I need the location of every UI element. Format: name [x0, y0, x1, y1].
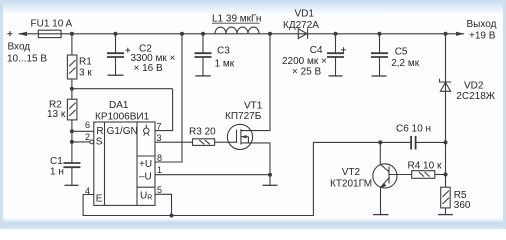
svg-text:VD1: VD1	[295, 9, 315, 20]
wire C5 column	[379, 34, 381, 53]
node rail VT1 drain	[268, 32, 272, 36]
svg-text:1 н: 1 н	[50, 167, 64, 178]
svg-text:2: 2	[85, 132, 90, 142]
svg-text:VT1: VT1	[244, 101, 263, 112]
capacitor C6	[411, 136, 416, 150]
node rail C3	[201, 32, 205, 36]
svg-text:360: 360	[454, 200, 471, 211]
svg-text:R: R	[96, 126, 103, 137]
svg-text:4: 4	[85, 186, 90, 196]
node rail C2	[114, 32, 118, 36]
node rail VD2	[444, 32, 448, 36]
node input plus	[7, 31, 12, 36]
wire VT1 source	[241, 143, 270, 175]
wire pin1 minus U	[155, 174, 270, 176]
svg-text:2,2 мк: 2,2 мк	[391, 58, 420, 69]
capacitor C4	[327, 53, 344, 57]
node rail R1	[70, 32, 74, 36]
svg-text:VT2: VT2	[342, 167, 361, 178]
wire top rail	[19, 33, 464, 35]
wire pin2	[72, 141, 90, 143]
capacitor C1	[63, 163, 80, 167]
svg-text:1: 1	[157, 165, 162, 175]
inductor L1	[215, 27, 259, 34]
svg-text:5: 5	[157, 185, 162, 195]
wire R1 column from rail to C1	[71, 34, 73, 55]
resistor R4	[412, 171, 435, 179]
svg-text:6: 6	[85, 120, 90, 130]
transistor VT2	[373, 164, 397, 188]
capacitor C2	[107, 53, 124, 57]
svg-text:× 16 В: × 16 В	[134, 63, 164, 74]
node rail C4	[334, 32, 338, 36]
svg-text:3: 3	[157, 133, 162, 143]
ground (C2)	[108, 74, 124, 76]
svg-text:+19 В: +19 В	[469, 30, 496, 41]
svg-text:C5: C5	[395, 47, 408, 58]
wire pin8 vertical	[155, 34, 182, 162]
wire pin4 E to bottom rail	[83, 142, 411, 215]
svg-text:R4 10 к: R4 10 к	[408, 160, 442, 171]
svg-text:КП727Б: КП727Б	[225, 111, 262, 122]
resistor R1	[67, 55, 77, 79]
wire VT2 emitter	[380, 188, 382, 215]
wire C3 column	[202, 34, 204, 53]
resistor R5	[441, 187, 451, 208]
node VT1 source minus U	[268, 173, 272, 177]
svg-text:–U: –U	[139, 172, 152, 183]
ground (VT2 emitter)	[373, 214, 389, 216]
wire VT2 base to R4	[389, 174, 412, 176]
node VT2 collector	[378, 140, 382, 144]
ground (minus U)	[263, 184, 278, 186]
wire R1R2 junction horizontal	[72, 88, 173, 90]
node C6 VD2 column	[444, 140, 448, 144]
svg-text:КТ201ГМ: КТ201ГМ	[330, 179, 372, 190]
node pin5 bottom rail	[170, 214, 174, 218]
svg-text:FU1 10 A: FU1 10 A	[31, 19, 73, 30]
wire C2 column	[115, 34, 117, 53]
wire pin7 to R1R2 junction	[155, 89, 173, 131]
ground (C4)	[329, 75, 343, 77]
svg-text:КД272А: КД272А	[283, 20, 319, 31]
node inversion circle pin2 S	[90, 140, 94, 144]
capacitor C3	[195, 53, 212, 57]
svg-text:13 к: 13 к	[47, 109, 66, 120]
svg-text:+U: +U	[139, 159, 152, 170]
node rail pin8	[180, 32, 184, 36]
svg-text:8: 8	[157, 153, 162, 163]
ground (C3)	[195, 75, 211, 77]
svg-text:E: E	[96, 194, 103, 205]
svg-text:3 к: 3 к	[79, 67, 92, 78]
ground (C5)	[372, 75, 387, 77]
wire VT2 collector	[379, 142, 381, 164]
IC DA1 box	[90, 122, 155, 205]
wire C1 ground stub	[71, 168, 73, 186]
svg-text:C4: C4	[310, 45, 323, 56]
zener VD2	[440, 79, 452, 92]
svg-text:VD2: VD2	[464, 80, 484, 91]
wire pin3 to gate	[155, 141, 193, 143]
svg-text:R1: R1	[79, 57, 92, 68]
svg-text:Вход: Вход	[8, 41, 31, 52]
svg-text:G1/GN: G1/GN	[107, 126, 138, 137]
svg-text:DA1: DA1	[109, 100, 129, 111]
svg-text:C3: C3	[217, 45, 230, 56]
svg-text:R3 20: R3 20	[189, 126, 216, 137]
svg-text:C6 10 н: C6 10 н	[396, 123, 431, 134]
wire VT1 drain	[241, 34, 270, 131]
svg-text:R5: R5	[454, 190, 467, 201]
ground (R5)	[438, 214, 453, 216]
svg-text:КР1006ВИ1: КР1006ВИ1	[95, 112, 150, 123]
wire C6 right to VD2 column	[416, 141, 446, 143]
transistor VT1 MOSFET	[227, 124, 252, 149]
wire pin5	[155, 194, 172, 215]
diode VD1	[298, 28, 307, 38]
node R2 pin6	[70, 129, 74, 133]
resistor R2	[67, 99, 77, 120]
svg-text:1 мк: 1 мк	[215, 59, 235, 70]
svg-text:× 25 В: × 25 В	[292, 66, 322, 77]
svg-text:S: S	[96, 137, 103, 148]
svg-text:10...15 В: 10...15 В	[7, 54, 47, 65]
wire pin6	[72, 130, 94, 132]
node R1 R2 pin7	[70, 87, 74, 91]
svg-text:Выход: Выход	[467, 19, 497, 30]
node R4 R5 column	[444, 173, 448, 177]
svg-text:7: 7	[157, 122, 162, 132]
node input arrow	[18, 32, 28, 36]
node pin2 C1	[70, 140, 74, 144]
node rail C5	[378, 32, 382, 36]
resistor R3	[193, 139, 215, 146]
fuse FU1	[38, 30, 61, 37]
svg-text:C1: C1	[50, 156, 63, 167]
wire C4 column	[335, 34, 337, 53]
node output arrow	[456, 32, 465, 36]
svg-text:2С218Ж: 2С218Ж	[456, 91, 495, 102]
capacitor C5	[371, 53, 388, 57]
ground (C1)	[65, 184, 79, 186]
wire R4 to column	[435, 174, 446, 176]
IC output symbol	[144, 125, 149, 136]
wire VD2 column	[445, 34, 447, 187]
